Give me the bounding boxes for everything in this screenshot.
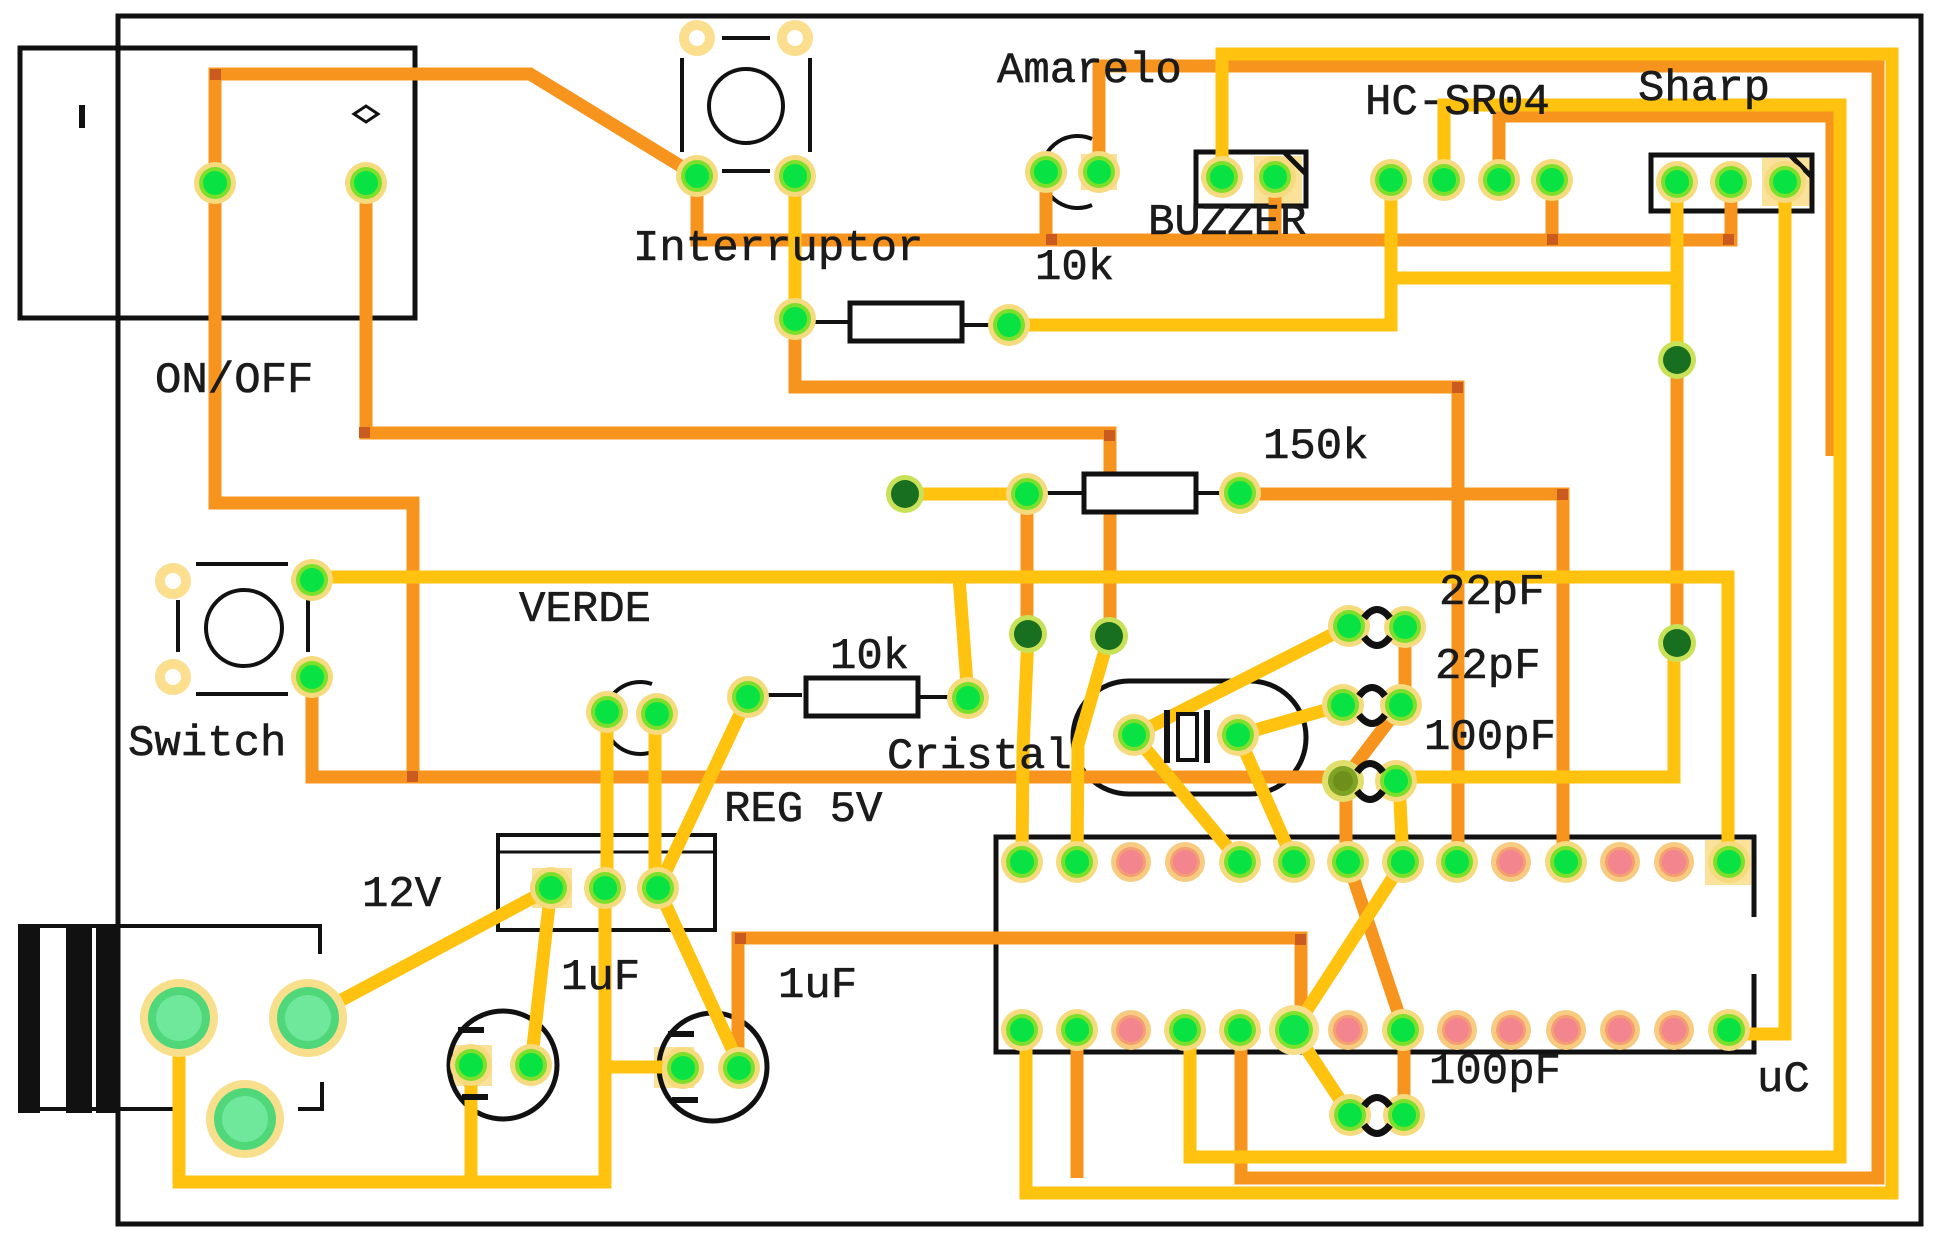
pad REG 5V pin3 bbox=[637, 867, 679, 909]
wire capacitor 22pF to 100pF diagonal bbox=[1343, 705, 1401, 781]
wire LED VERDE cathode to REG pin2 bbox=[601, 712, 614, 888]
wire crystal pad1 to uC pin5 bbox=[1134, 735, 1240, 862]
wire DC- to via V3 bbox=[366, 183, 1110, 632]
uC bottom row pads pins 15-28 bbox=[1001, 1009, 1043, 1051]
capacitor 100pF symbol arcs bbox=[1357, 764, 1383, 773]
via V4 bbox=[1009, 615, 1047, 653]
pad DC jack pin1 bbox=[194, 162, 236, 204]
svg-text:ON/OFF: ON/OFF bbox=[155, 356, 313, 406]
pad HC-SR04 pin3 bbox=[1478, 159, 1520, 201]
svg-text:1uF: 1uF bbox=[778, 961, 857, 1011]
pad HC-SR04 pin1 bbox=[1370, 159, 1412, 201]
pad LED VERDE anode bbox=[636, 693, 678, 735]
LED VERDE outline arc bbox=[604, 682, 652, 754]
pad resistor R3 left bbox=[727, 676, 769, 718]
pad capacitor 100pF right bbox=[1375, 760, 1417, 802]
buzzer corner chamfer bbox=[1284, 152, 1306, 174]
crystal symbol bbox=[1164, 710, 1170, 763]
smd pad square of Sharp pin 3 bbox=[1762, 158, 1810, 206]
wire Interruptor pad1 bus to Sharp pin2 bbox=[697, 176, 1731, 240]
via V5 bbox=[886, 475, 924, 513]
capacitor 22pF symbol arcs bbox=[1364, 610, 1390, 619]
12V jack outline bottom bbox=[18, 1107, 185, 1111]
electrolytic capacitor C6 1uF outline bbox=[659, 1013, 767, 1121]
svg-text:22pF: 22pF bbox=[1439, 568, 1545, 618]
wire crystal pad2 to capacitor 22pF-2 left bbox=[1238, 705, 1343, 735]
pad buzzer pin1 bbox=[1201, 156, 1243, 198]
wire resistor 10k right pad to HC-SR04 pin1 bbox=[1009, 180, 1391, 325]
wire uC pin7 top to pad8 bottom diagonal bbox=[1348, 862, 1404, 1030]
pad capacitor C5 plus bbox=[510, 1044, 552, 1086]
svg-text:12V: 12V bbox=[362, 870, 442, 920]
svg-text:150k: 150k bbox=[1263, 422, 1369, 472]
pushbutton Interruptor outline bbox=[682, 38, 810, 171]
wire resistor 10k top left pad to uC pin9 bbox=[795, 325, 1458, 862]
svg-text:Sharp: Sharp bbox=[1638, 64, 1770, 114]
wire resistor 10k left pad to REG pin3 bbox=[658, 697, 748, 888]
pad capacitor 100pF-2 right bbox=[1383, 1094, 1425, 1136]
wire uC pad6 bottom to uC pin8 top diagonal bbox=[1294, 862, 1403, 1030]
wire ground branch to capacitor C5 left bbox=[465, 1065, 478, 1182]
wire Sharp pin1 to via V1 bbox=[1671, 182, 1684, 360]
wire capacitor 100pF right to uC pin8 bbox=[1399, 781, 1403, 862]
smd pad square of BUZZER pin 2 bbox=[1254, 156, 1302, 204]
wire Interruptor pad2 to resistor 10k bbox=[789, 176, 802, 319]
wire VERDE net branch to resistor 10k right pad bbox=[959, 577, 968, 698]
wire DC+ to Interruptor pad1 bbox=[215, 74, 697, 183]
pad capacitor 22pF-2 left bbox=[1322, 684, 1364, 726]
wire uC pad6 bottom to capacitor 100pF bottom left bbox=[1294, 1030, 1350, 1115]
svg-text:22pF: 22pF bbox=[1435, 642, 1541, 692]
wire buzzer pin2 stub bbox=[1269, 177, 1282, 240]
DC jack polarity pin mark bbox=[79, 105, 85, 128]
wire via V5 to resistor 150k left pad bbox=[905, 488, 1027, 501]
pad 12V jack pin1 bbox=[140, 979, 218, 1057]
pad 12V jack pin2 bbox=[269, 979, 347, 1057]
pad Interruptor pin1 bbox=[676, 155, 718, 197]
svg-text:REG 5V: REG 5V bbox=[724, 785, 883, 835]
wire Switch pad2 to capacitor 100pF left bbox=[312, 677, 1343, 777]
Sharp corner chamfer bbox=[1790, 155, 1812, 177]
wire capacitor 22pF chain bbox=[1399, 627, 1412, 705]
svg-text:uC: uC bbox=[1757, 1055, 1810, 1105]
wire capacitor 100pF bottom right to uC pad8 bbox=[1398, 1030, 1411, 1115]
pad resistor 150k left bbox=[1006, 473, 1048, 515]
pad Switch pin1 bbox=[291, 559, 333, 601]
smd pad square of uC pin 14 top bbox=[1705, 840, 1751, 885]
capacitor 22pF-2 symbol arcs bbox=[1359, 688, 1385, 697]
resistor R3 10k body bbox=[806, 678, 918, 716]
wire LED Amarelo cathode stub bbox=[1040, 172, 1053, 246]
capacitor 100pF-2 symbol arcs bbox=[1364, 1098, 1390, 1107]
pad resistor 10k right bbox=[988, 304, 1030, 346]
pad Sharp pin1 bbox=[1656, 161, 1698, 203]
pad LED Amarelo cathode bbox=[1025, 151, 1067, 193]
wire via V3 to uC pin2 bbox=[1077, 636, 1109, 862]
wire capacitor C6 to uC bottom pad6 bbox=[738, 938, 1301, 1068]
smd pad square of LED Amarelo bbox=[1081, 154, 1117, 190]
uC top row pads pins 1-14 bbox=[1001, 841, 1043, 883]
REG 5V inner line bbox=[498, 851, 715, 854]
wire buzzer pin1 long loop to uC bottom pad1 bbox=[1026, 54, 1892, 1193]
resistor R2 150k leads bbox=[1040, 491, 1086, 495]
pad HC-SR04 pin2 bbox=[1423, 159, 1465, 201]
pad capacitor 22pF left bbox=[1328, 605, 1370, 647]
12V jack outline top bbox=[18, 926, 320, 954]
smd pad square of capacitor C6 1uF bbox=[654, 1047, 694, 1088]
pad crystal pin1 bbox=[1113, 714, 1155, 756]
svg-text:1uF: 1uF bbox=[561, 953, 640, 1003]
pad buzzer pin2 bbox=[1254, 156, 1296, 198]
svg-text:10k: 10k bbox=[1035, 243, 1114, 293]
svg-text:Switch: Switch bbox=[128, 719, 286, 769]
svg-text:BUZZER: BUZZER bbox=[1148, 198, 1306, 248]
svg-text:Interruptor: Interruptor bbox=[633, 224, 923, 274]
pad LED Amarelo anode bbox=[1078, 151, 1120, 193]
REG 5V connector outline bbox=[498, 835, 715, 930]
pad REG 5V pin2 bbox=[584, 867, 626, 909]
pad HC-SR04 pin4 bbox=[1531, 159, 1573, 201]
mount ring Interruptor top-left bbox=[684, 25, 710, 51]
uC IC outline with notch bbox=[996, 837, 1754, 1052]
pad capacitor C6 minus bbox=[662, 1047, 704, 1089]
pad resistor 10k left bbox=[774, 298, 816, 340]
pad REG 5V pin1 bbox=[530, 867, 572, 909]
pad Interruptor pin2 bbox=[774, 155, 816, 197]
smd pad square of capacitor C5 1uF bbox=[452, 1045, 492, 1086]
pad capacitor C5 minus bbox=[450, 1044, 492, 1086]
pad Sharp pin2 bbox=[1710, 161, 1752, 203]
DC power jack J1 outline bbox=[20, 48, 415, 318]
svg-text:Amarelo: Amarelo bbox=[997, 46, 1182, 96]
wire ground branch to capacitor C6 left bbox=[605, 1061, 680, 1074]
wire HC-SR04 pin3 to right side bbox=[1499, 116, 1832, 456]
crystal Y1 outline bbox=[1073, 681, 1306, 794]
pad capacitor 22pF right bbox=[1384, 606, 1426, 648]
pushbutton Switch outline bbox=[178, 564, 308, 694]
wire 12V pad1 ground loop to REG pin2 bbox=[179, 888, 605, 1182]
resistor R1 10k body bbox=[850, 303, 962, 341]
via V3 bbox=[1090, 617, 1128, 655]
svg-text:10k: 10k bbox=[830, 632, 909, 682]
pad crystal pin2 bbox=[1217, 714, 1259, 756]
wire via V4 to uC pin1 bbox=[1022, 634, 1028, 862]
pad capacitor 100pF-2 left bbox=[1329, 1094, 1371, 1136]
wire resistor 150k left pad to via V4 bbox=[1021, 494, 1034, 633]
pad resistor 150k right bbox=[1219, 472, 1261, 514]
smd pad square of REG 5V pin 1 bbox=[532, 868, 572, 908]
DC jack diamond mark bbox=[354, 106, 378, 122]
wire Sharp pin3 to uC bottom pad14 bbox=[1729, 182, 1785, 1034]
svg-text:100pF: 100pF bbox=[1424, 713, 1556, 763]
pad LED VERDE cathode bbox=[586, 691, 628, 733]
via V1 bbox=[1658, 341, 1696, 379]
via V2 bbox=[1658, 624, 1696, 662]
pad resistor R3 right bbox=[947, 677, 989, 719]
wire crystal pad2 to uC pin6 bbox=[1238, 735, 1294, 862]
12V jack corner mark bbox=[298, 1082, 322, 1109]
wire 12V pad2 to REG pin1 bbox=[308, 888, 551, 1018]
pad capacitor 100pF left olive bbox=[1322, 760, 1364, 802]
wire HC-SR04 pin1 branch to Sharp pin1 bbox=[1391, 272, 1677, 285]
svg-text:VERDE: VERDE bbox=[519, 585, 651, 635]
electrolytic capacitor C5 1uF outline bbox=[449, 1011, 557, 1119]
wire REG pin3 to capacitor C6 right bbox=[658, 888, 738, 1062]
pad Sharp pin3 bbox=[1764, 161, 1806, 203]
pad capacitor C6 plus bbox=[718, 1047, 760, 1089]
wire resistor 150k right pad to uC pin11 bbox=[1240, 494, 1563, 862]
resistor R2 150k body bbox=[1084, 474, 1196, 512]
wire via V2 to capacitor 100pF right bbox=[1396, 648, 1674, 777]
pad Switch pin2 bbox=[291, 656, 333, 698]
resistor R3 10k leads bbox=[760, 693, 802, 697]
12V power jack black contact bars bbox=[18, 924, 40, 1113]
LED Amarelo outline arc bbox=[1042, 136, 1092, 208]
pad capacitor 22pF-2 right bbox=[1380, 684, 1422, 726]
wire capacitor 100pF left to uC pin7 bbox=[1340, 781, 1353, 862]
buzzer connector outline bbox=[1196, 152, 1306, 206]
wire crystal pad1 to capacitor 22pF left bbox=[1134, 626, 1349, 735]
wire via V1 to via V2 bbox=[1671, 360, 1684, 643]
resistor R1 10k leads bbox=[812, 320, 852, 324]
svg-text:HC-SR04: HC-SR04 bbox=[1365, 78, 1550, 128]
mount ring Switch bottom-left bbox=[160, 664, 186, 690]
pad DC jack pin2 bbox=[345, 162, 387, 204]
svg-text:100pF: 100pF bbox=[1429, 1047, 1561, 1097]
wire LED VERDE anode to REG pin3 bbox=[649, 714, 662, 888]
mount ring Switch top-left bbox=[160, 568, 186, 594]
capacitor C5 polarity marks bbox=[458, 1027, 484, 1033]
wire DC+ down to Switch net bbox=[215, 183, 413, 781]
wire HC-SR04 pin4 stub bbox=[1546, 180, 1559, 240]
svg-text:Cristal: Cristal bbox=[887, 732, 1072, 782]
wire uC bottom pad2 stub bbox=[1071, 1030, 1084, 1178]
wire HC-SR04 pin2 long loop to uC bottom pad4 bbox=[1190, 105, 1840, 1157]
Sharp connector outline bbox=[1651, 155, 1812, 211]
pad 12V jack pin3 bbox=[206, 1080, 284, 1158]
wire LED Amarelo anode loop to uC bottom pad5 bbox=[1099, 66, 1878, 1178]
capacitor C6 polarity marks bbox=[668, 1031, 694, 1037]
mount ring Interruptor top-right bbox=[782, 25, 808, 51]
wire REG pin1 to capacitor C5 right bbox=[531, 888, 551, 1065]
wire Switch pad1 VERDE net to uC pin14 bbox=[312, 577, 1728, 862]
